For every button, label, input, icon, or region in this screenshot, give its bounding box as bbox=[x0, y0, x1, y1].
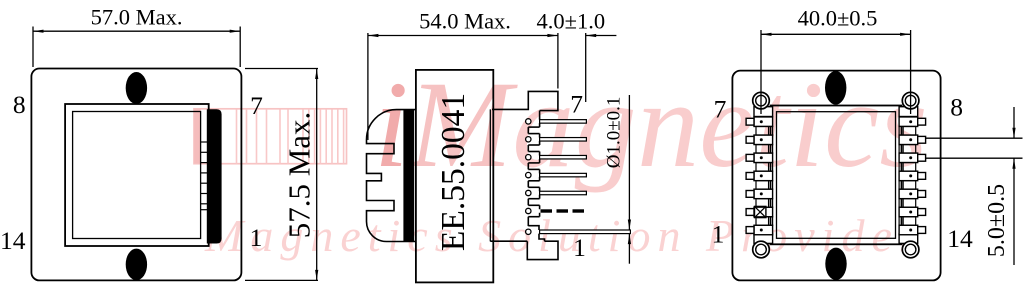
left view bobbin flange inner rect bbox=[73, 112, 201, 239]
svg-text:14: 14 bbox=[0, 226, 26, 255]
svg-text:7: 7 bbox=[250, 91, 263, 120]
middle view pins 7 to 3 solid bars bbox=[540, 120, 587, 195]
svg-text:EE.55.0041: EE.55.0041 bbox=[435, 93, 472, 251]
left view pin row tick lines bbox=[201, 142, 207, 210]
right view 5.0 dimension arrows bbox=[1013, 107, 1015, 138]
svg-text:7: 7 bbox=[714, 95, 727, 124]
middle view pin flange comb profile bbox=[528, 111, 539, 227]
middle view pin flange top tab outline bbox=[492, 91, 558, 110]
svg-text:54.0 Max.: 54.0 Max. bbox=[419, 9, 511, 34]
svg-text:1: 1 bbox=[712, 219, 725, 248]
left view: front view outer case bbox=[31, 69, 241, 281]
middle view pin 1 long bar bbox=[540, 230, 631, 234]
left view bobbin flange outer rect bbox=[65, 104, 209, 246]
right view right pin strip pins 8..14 bbox=[899, 107, 926, 244]
middle view pin holes circles bbox=[526, 119, 531, 235]
left view dimension 57.0 Max extension lines bbox=[32, 27, 34, 68]
svg-text:8: 8 bbox=[13, 90, 26, 119]
right view bottom core dimple ellipse bbox=[825, 248, 846, 280]
middle view removed pin dashed bar bbox=[541, 209, 585, 212]
left view dimension 57.5 Max extension lines bbox=[245, 68, 318, 70]
svg-text:7: 7 bbox=[570, 89, 583, 118]
right view top core dimple ellipse bbox=[825, 71, 846, 105]
svg-text:4.0±1.0: 4.0±1.0 bbox=[536, 9, 605, 34]
middle view bobbin body rect bbox=[416, 70, 493, 283]
right view outer case bbox=[732, 71, 940, 281]
middle view pin 1 bump and bottom foot bbox=[490, 226, 558, 260]
svg-text:1: 1 bbox=[250, 223, 263, 252]
svg-text:57.0 Max.: 57.0 Max. bbox=[91, 5, 183, 30]
left view pin strip edge-on black bar bbox=[207, 109, 222, 243]
svg-text:57.5 Max.: 57.5 Max. bbox=[282, 112, 317, 239]
right view pin pitch leader lines bbox=[926, 137, 1023, 139]
svg-text:Ø1.0±0.1: Ø1.0±0.1 bbox=[603, 97, 624, 169]
right view left pin strip pins 7..1 bbox=[746, 107, 773, 244]
left view dimension 57.0 Max line bbox=[33, 30, 240, 32]
right view bobbin flange outer square bbox=[771, 106, 902, 245]
middle view core lamination black bar bbox=[403, 110, 414, 242]
right view corner eyelets bbox=[753, 92, 919, 258]
middle view 54.0 Max dimension line bbox=[368, 35, 558, 37]
svg-text:1: 1 bbox=[573, 233, 586, 262]
svg-text:40.0±0.5: 40.0±0.5 bbox=[798, 6, 878, 31]
left view dimension 57.5 Max line bbox=[316, 69, 318, 281]
right view 40.0 dim extension lines through eyelets bbox=[760, 30, 762, 114]
left view top core dimple ellipse bbox=[126, 72, 147, 104]
right view 40.0 dimension line bbox=[761, 33, 911, 35]
middle view EE core profile outline bbox=[367, 110, 416, 242]
middle view 54.0 dim right extension line bbox=[557, 33, 559, 89]
right view bobbin flange inner square bbox=[777, 112, 896, 239]
middle view pin diameter dimension line and arrows bbox=[628, 95, 630, 230]
middle view pin end extension line bbox=[585, 33, 587, 102]
left view bottom core dimple ellipse bbox=[126, 249, 147, 281]
svg-text:5.0±0.5: 5.0±0.5 bbox=[984, 184, 1010, 257]
middle view 54.0 dim left extension line bbox=[367, 33, 369, 140]
middle view pin flange left edge bbox=[489, 109, 491, 241]
svg-text:14: 14 bbox=[947, 224, 973, 253]
watermark barcode logo bbox=[194, 109, 347, 164]
svg-text:8: 8 bbox=[950, 93, 963, 122]
middle view 4.0 dimension right arrow bbox=[586, 35, 617, 37]
